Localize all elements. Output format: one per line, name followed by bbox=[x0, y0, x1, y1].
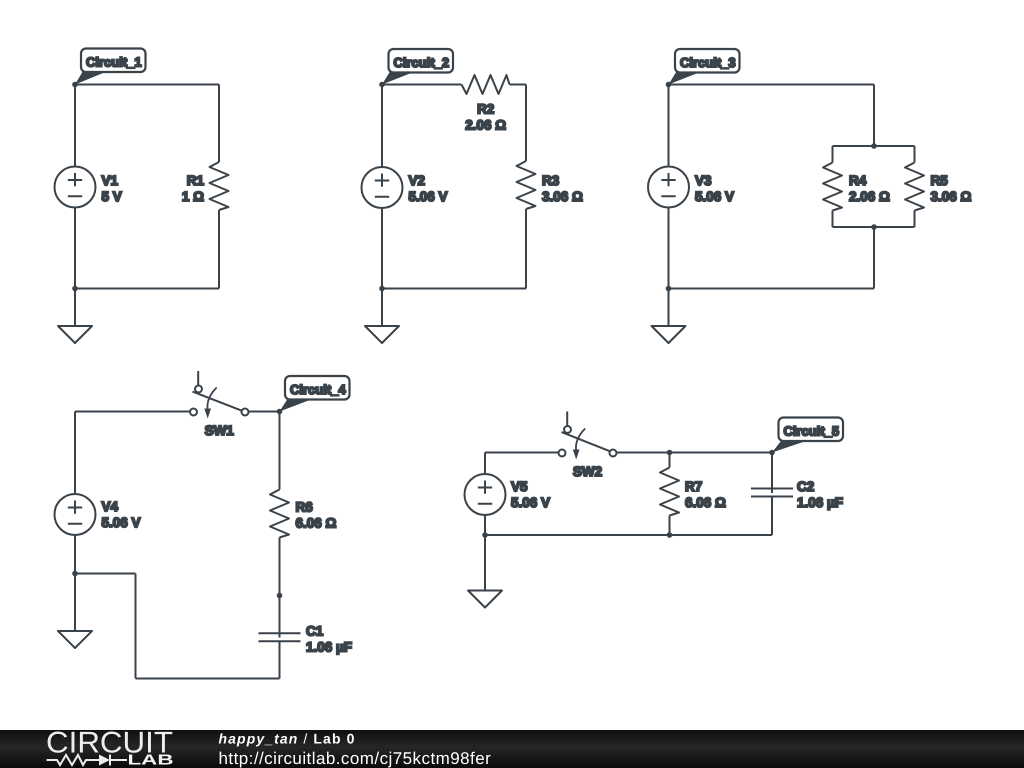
node top junction (circuit 4) bbox=[277, 409, 283, 415]
svg-text:5.06 V: 5.06 V bbox=[511, 495, 550, 510]
wire left upper (circuit 5) bbox=[484, 453, 486, 475]
voltage source V4 bbox=[55, 494, 96, 535]
svg-text:2.06 Ω: 2.06 Ω bbox=[849, 189, 890, 204]
wire top (circuit 1) bbox=[75, 84, 219, 86]
svg-text:5.06 V: 5.06 V bbox=[102, 515, 141, 530]
svg-text:SW1: SW1 bbox=[205, 423, 235, 438]
resistor R4 bbox=[823, 163, 842, 211]
wire bottom (circuit 3) bbox=[669, 288, 875, 290]
wire right upper (circuit 3) bbox=[873, 85, 875, 147]
svg-text:3.06 Ω: 3.06 Ω bbox=[931, 189, 972, 204]
svg-text:http://circuitlab.com/cj75kctm: http://circuitlab.com/cj75kctm98fer bbox=[219, 749, 492, 768]
svg-text:R6: R6 bbox=[296, 500, 314, 515]
logo resistor squiggle bbox=[47, 755, 100, 765]
wire left branch upper (circuit 3) bbox=[832, 146, 834, 163]
svg-text:V3: V3 bbox=[695, 173, 712, 188]
svg-text:R4: R4 bbox=[849, 173, 867, 188]
resistor R7 bbox=[660, 453, 679, 536]
svg-text:Circuit_3: Circuit_3 bbox=[680, 55, 736, 70]
wire left upper (circuit 2) bbox=[381, 85, 383, 168]
node label Circuit_5 bbox=[772, 418, 843, 453]
svg-text:V1: V1 bbox=[102, 173, 119, 188]
switch SW1 bbox=[190, 371, 249, 419]
voltage source V2 bbox=[362, 167, 403, 208]
svg-text:3.06 Ω: 3.06 Ω bbox=[542, 189, 583, 204]
svg-text:1.06 µF: 1.06 µF bbox=[797, 495, 843, 510]
svg-text:5.06 V: 5.06 V bbox=[409, 189, 448, 204]
wire ground stem (circuit 3) bbox=[668, 289, 670, 327]
svg-text:V5: V5 bbox=[511, 479, 528, 494]
wire left upper (circuit 3) bbox=[668, 85, 670, 167]
node bottom-left junction (circuit 1) bbox=[72, 286, 78, 292]
node label Circuit_4 bbox=[280, 376, 350, 412]
resistor R6 bbox=[270, 490, 289, 538]
ground (circuit 1) bbox=[58, 326, 92, 343]
svg-text:R7: R7 bbox=[685, 479, 702, 494]
svg-text:R3: R3 bbox=[542, 173, 560, 188]
svg-text:R5: R5 bbox=[931, 173, 949, 188]
svg-text:Circuit_1: Circuit_1 bbox=[86, 55, 142, 70]
svg-text:6.06 Ω: 6.06 Ω bbox=[685, 495, 726, 510]
wire ground stem (circuit 1) bbox=[74, 289, 76, 327]
wire ground stem (circuit 4) bbox=[74, 574, 76, 632]
wire right branch upper (circuit 3) bbox=[914, 146, 916, 163]
wire top right (circuit 2) bbox=[510, 84, 527, 86]
svg-text:6.06 Ω: 6.06 Ω bbox=[296, 516, 337, 531]
svg-text:LAB: LAB bbox=[128, 753, 174, 768]
footer background bbox=[0, 730, 1024, 768]
wire parallel top rail (circuit 3) bbox=[833, 145, 915, 147]
node parallel top junction (circuit 3) bbox=[871, 143, 877, 149]
wire right upper (circuit 2) bbox=[525, 85, 527, 162]
svg-text:SW2: SW2 bbox=[573, 464, 602, 479]
wire right middle (circuit 4) bbox=[279, 538, 281, 596]
ground (circuit 5) bbox=[468, 591, 502, 608]
voltage source V1 bbox=[55, 167, 96, 208]
wire bottom (circuit 4) bbox=[136, 678, 280, 680]
switch SW2 bbox=[559, 412, 617, 460]
wire switch to node (circuit 4) bbox=[249, 411, 280, 413]
svg-text:Circuit_5: Circuit_5 bbox=[784, 424, 840, 439]
wire switch to right (circuit 5) bbox=[617, 452, 772, 454]
wire left upper (circuit 4) bbox=[74, 412, 76, 495]
resistor R1 bbox=[210, 162, 229, 210]
node parallel bottom junction (circuit 3) bbox=[871, 224, 877, 230]
node label Circuit_3 bbox=[669, 49, 740, 85]
svg-text:V2: V2 bbox=[409, 173, 426, 188]
wire left upper (circuit 1) bbox=[74, 85, 76, 167]
wire left lower (circuit 2) bbox=[381, 208, 383, 289]
capacitor C1 bbox=[259, 596, 301, 679]
wire bottom (circuit 5) bbox=[485, 534, 772, 536]
svg-text:5.06 V: 5.06 V bbox=[695, 189, 734, 204]
svg-text:C2: C2 bbox=[797, 479, 814, 494]
node label Circuit_1 bbox=[75, 49, 146, 85]
node label Circuit_2 bbox=[382, 49, 453, 85]
node R7 top junction (circuit 5) bbox=[667, 450, 673, 456]
svg-text:R2: R2 bbox=[477, 101, 494, 116]
node bottom-left junction (circuit 5) bbox=[482, 532, 488, 538]
svg-text:1 Ω: 1 Ω bbox=[182, 189, 204, 204]
wire right upper (circuit 1) bbox=[218, 85, 220, 163]
node bottom-left junction (circuit 3) bbox=[666, 286, 672, 292]
node C2 top junction (circuit 5) bbox=[769, 450, 775, 456]
wire right lower (circuit 3) bbox=[873, 227, 875, 289]
wire right lower (circuit 2) bbox=[525, 209, 527, 289]
wire top (circuit 3) bbox=[669, 84, 875, 86]
capacitor C2 bbox=[751, 453, 793, 536]
svg-text:Circuit_4: Circuit_4 bbox=[290, 382, 346, 397]
svg-text:1.06 µF: 1.06 µF bbox=[306, 640, 352, 655]
svg-text:happy_tan / Lab 0: happy_tan / Lab 0 bbox=[219, 731, 356, 747]
wire bottom to left rail (circuit 4) bbox=[75, 573, 136, 575]
wire ground stem (circuit 5) bbox=[484, 535, 486, 591]
node bottom-left junction (circuit 2) bbox=[379, 286, 385, 292]
svg-text:5 V: 5 V bbox=[102, 189, 122, 204]
voltage source V3 bbox=[648, 167, 689, 208]
ground (circuit 4) bbox=[58, 631, 92, 648]
wire parallel bottom rail (circuit 3) bbox=[833, 226, 915, 228]
wire left lower (circuit 1) bbox=[74, 208, 76, 289]
ground (circuit 2) bbox=[365, 326, 399, 343]
ground (circuit 3) bbox=[652, 326, 686, 343]
wire right upper (circuit 4) bbox=[279, 412, 281, 490]
node top-left (circuit 2) bbox=[379, 82, 385, 88]
svg-text:R1: R1 bbox=[187, 173, 205, 188]
voltage source V5 bbox=[465, 474, 506, 515]
resistor R3 bbox=[517, 161, 536, 209]
wire bottom riser (circuit 4) bbox=[135, 574, 137, 679]
wire bottom (circuit 2) bbox=[382, 288, 526, 290]
node left junction (circuit 4) bbox=[72, 571, 78, 577]
wire right branch lower (circuit 3) bbox=[914, 211, 916, 228]
wire right lower (circuit 1) bbox=[218, 210, 220, 289]
wire top left (circuit 4) bbox=[75, 411, 190, 413]
resistor R2 bbox=[462, 75, 510, 94]
wire top left (circuit 5) bbox=[485, 452, 558, 454]
logo diode bbox=[99, 755, 127, 766]
wire bottom (circuit 1) bbox=[75, 288, 219, 290]
svg-text:2.06 Ω: 2.06 Ω bbox=[465, 117, 506, 132]
resistor R5 bbox=[905, 163, 924, 211]
wire left lower (circuit 5) bbox=[484, 515, 486, 535]
svg-text:V4: V4 bbox=[102, 499, 119, 514]
wire ground stem (circuit 2) bbox=[381, 289, 383, 327]
wire top left (circuit 2) bbox=[382, 84, 462, 86]
node capacitor junction (circuit 4) bbox=[277, 593, 283, 599]
node R7 bottom junction (circuit 5) bbox=[667, 532, 673, 538]
node top-left (circuit 1) bbox=[72, 82, 78, 88]
node top-left (circuit 3) bbox=[666, 82, 672, 88]
wire left lower (circuit 3) bbox=[668, 208, 670, 289]
svg-text:Circuit_2: Circuit_2 bbox=[394, 55, 450, 70]
wire left lower (circuit 4) bbox=[74, 535, 76, 574]
svg-text:C1: C1 bbox=[306, 624, 324, 639]
wire left branch lower (circuit 3) bbox=[832, 211, 834, 228]
